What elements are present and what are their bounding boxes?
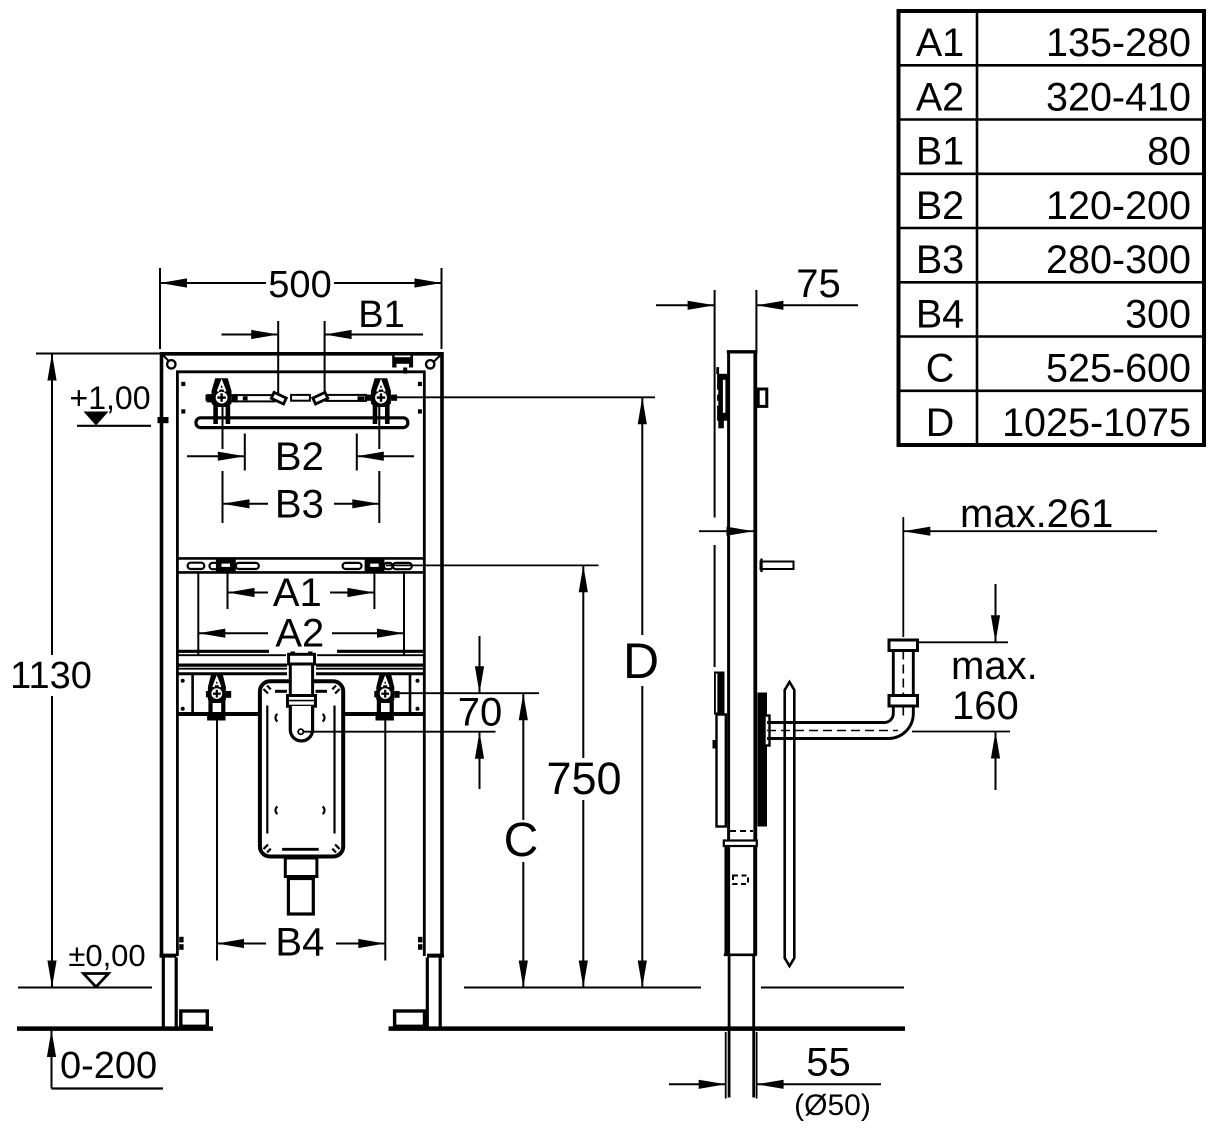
drain spout flange — [285, 858, 317, 877]
svg-text:A1: A1 — [273, 571, 322, 615]
side lower pipe collar — [724, 841, 757, 847]
svg-text:0-200: 0-200 — [60, 1045, 157, 1087]
faucet rail centre dash — [291, 395, 310, 401]
dimension B2 line — [187, 455, 414, 457]
frame corner holes — [167, 360, 175, 368]
side left unit bar upper — [714, 672, 725, 715]
lower rail thin lines — [177, 655, 424, 669]
right foot plate — [395, 1011, 425, 1026]
side riser mid collar — [889, 696, 918, 707]
dimension A2 line — [198, 632, 404, 634]
lower bracket right (A) — [374, 673, 399, 721]
dimension B3 line — [223, 503, 380, 505]
faucet rail left bar — [235, 395, 274, 401]
svg-text:75: 75 — [796, 262, 841, 306]
faucet bracket left (A) — [206, 378, 238, 424]
side horizontal drain pipe — [767, 723, 889, 739]
svg-text:160: 160 — [952, 684, 1019, 728]
side siphon bar behind rail — [758, 693, 768, 827]
faucet rail right bar — [326, 395, 366, 401]
leader line to 750 — [386, 564, 599, 566]
leader line from bracket to 70 — [391, 692, 539, 694]
drain pipe lower section with U bend — [290, 706, 312, 741]
svg-text:max.: max. — [951, 644, 1038, 688]
dimension 55 extension lines — [726, 1032, 757, 1099]
side wall anchor bracket — [716, 367, 719, 374]
dimension 500 line — [160, 282, 442, 284]
right leg tube — [427, 954, 444, 958]
lower band screw dots — [181, 679, 185, 683]
dimension 70 arrows — [479, 636, 481, 693]
plate c-marks — [275, 714, 324, 814]
side riser pipe — [884, 651, 913, 739]
svg-text:B2: B2 — [275, 435, 324, 479]
frame top-right black fitting — [392, 354, 413, 368]
level mark +1,00 triangle — [84, 412, 109, 426]
svg-text:B3: B3 — [916, 238, 964, 282]
frame outer rails — [160, 352, 444, 956]
dimension B4 line — [217, 943, 385, 945]
dimension 75 line — [656, 304, 858, 306]
svg-text:B4: B4 — [275, 921, 324, 965]
dimension B4 ticks — [217, 714, 385, 961]
dimension 0-200 underline — [52, 1087, 164, 1089]
side left unit bar lower — [717, 715, 726, 827]
dimension 1130 vertical line — [51, 354, 53, 988]
svg-text:300: 300 — [1125, 292, 1191, 336]
frame inner rails — [176, 371, 426, 956]
dimension max.160 top — [917, 641, 1008, 643]
level line y987 — [18, 987, 904, 989]
side lower pipe dashes — [730, 830, 753, 832]
cistern mounting plate — [260, 681, 343, 856]
level mark +1,00 underline — [77, 425, 151, 427]
svg-text:55: 55 — [806, 1041, 851, 1085]
plate top dashes — [275, 690, 287, 693]
svg-text:500: 500 — [268, 264, 331, 306]
lower band top line — [177, 672, 424, 675]
faucet bracket right (A) — [365, 378, 397, 424]
leader line from top bracket to D — [388, 396, 655, 398]
svg-text:(Ø50): (Ø50) — [794, 1089, 871, 1122]
svg-text:A2: A2 — [275, 612, 324, 656]
dimension max.261 line — [699, 530, 1157, 532]
dimension 500 extension lines — [160, 268, 442, 349]
svg-text:525-600: 525-600 — [1046, 347, 1191, 391]
side water stub — [761, 562, 794, 570]
svg-text:80: 80 — [1147, 130, 1191, 174]
dimension C line — [522, 693, 524, 987]
svg-text:B3: B3 — [275, 483, 324, 527]
middle rail left clamp — [216, 558, 236, 574]
svg-text:D: D — [926, 401, 955, 445]
frame rail screw dots upper — [181, 382, 185, 386]
side pipe flange — [765, 716, 770, 746]
svg-text:C: C — [926, 347, 955, 391]
dimension D line — [641, 397, 643, 987]
left foot plate — [181, 1011, 208, 1026]
svg-text:70: 70 — [458, 691, 503, 735]
dimension A1 line — [228, 592, 375, 594]
svg-text:1130: 1130 — [10, 655, 92, 697]
middle rail slots — [188, 563, 412, 570]
svg-text:135-280: 135-280 — [1046, 21, 1191, 65]
dimension A2 ticks — [198, 573, 404, 655]
plate corner marks — [264, 686, 340, 853]
svg-text:+1,00: +1,00 — [70, 380, 151, 416]
side rail profile — [727, 352, 758, 956]
dimension A1 ticks — [228, 573, 375, 609]
middle rail lines — [177, 558, 424, 572]
side riser top collar — [889, 640, 918, 651]
side drain elbow mounting plate — [785, 682, 795, 966]
dimension max.160 bottom — [912, 731, 1010, 733]
svg-text:750: 750 — [546, 753, 621, 804]
svg-text:A1: A1 — [916, 21, 964, 65]
lower band verticals — [193, 675, 410, 714]
svg-text:B2: B2 — [916, 184, 964, 228]
side wall line — [714, 290, 716, 667]
dimension 1130 arrowheads — [47, 354, 56, 381]
svg-text:B4: B4 — [916, 292, 964, 336]
dimension B1 ticks — [278, 321, 324, 401]
svg-text:A2: A2 — [916, 75, 964, 119]
floor line — [17, 1026, 905, 1031]
dimension B2 ticks — [245, 434, 357, 471]
faucet rail left stub bar — [208, 395, 237, 401]
side below-floor pipe — [729, 956, 754, 1098]
drain inlet collar — [291, 652, 296, 656]
drain pipe upper section — [290, 664, 312, 696]
dimension 750 line — [582, 565, 584, 987]
svg-text:max.261: max.261 — [960, 492, 1113, 536]
svg-text:120-200: 120-200 — [1046, 184, 1191, 228]
svg-text:280-300: 280-300 — [1046, 238, 1191, 282]
dimension B1 line — [222, 334, 424, 336]
side drain pipe centreline dashed — [767, 730, 898, 732]
plate bottom dash — [282, 848, 319, 851]
dimension B3 ticks — [223, 407, 380, 523]
faucet rail right angled tab — [313, 392, 328, 404]
level mark ±0,00 triangle — [84, 974, 109, 988]
svg-text:B1: B1 — [916, 130, 964, 174]
level mark +1,00 frame tab — [158, 417, 169, 423]
frame corner chamfers — [163, 355, 172, 365]
table row A1 — [916, 21, 1191, 445]
dimension 1130 extension line top — [36, 353, 160, 355]
side lower pipe walls — [726, 846, 755, 955]
svg-text:320-410: 320-410 — [1046, 75, 1191, 119]
svg-text:B1: B1 — [358, 294, 404, 336]
faucet rail left angled tab — [271, 392, 286, 404]
side pipe floor collar — [724, 953, 757, 956]
siphon leader dot — [298, 729, 303, 734]
side riser centreline dashed — [902, 651, 904, 719]
svg-text:C: C — [504, 814, 539, 867]
side rail back square — [758, 389, 767, 406]
plate inner verticals — [267, 706, 334, 834]
dimension max.261 extension line — [902, 517, 904, 637]
middle rail right clamp — [365, 558, 385, 574]
lower rail thick lines — [177, 651, 424, 665]
side lower pipe dashed box — [733, 876, 748, 885]
leader line from siphon to 70 — [303, 731, 495, 733]
dimension 55 line — [669, 1083, 881, 1085]
svg-text:±0,00: ±0,00 — [68, 938, 145, 973]
drain pipe ring collar — [288, 696, 316, 707]
drain spout pipe — [288, 879, 313, 915]
leg lock screws — [179, 937, 183, 943]
svg-text:D: D — [623, 633, 659, 689]
lower band bottom line — [178, 712, 425, 716]
dimension table — [899, 11, 1205, 445]
svg-text:1025-1075: 1025-1075 — [1002, 401, 1191, 445]
bracket support bar — [196, 418, 408, 428]
lower bracket left (A) — [206, 673, 231, 721]
dimension 75 extension line — [755, 290, 757, 351]
left leg tube — [160, 954, 177, 958]
dimension 0-200 line — [51, 1030, 53, 1089]
